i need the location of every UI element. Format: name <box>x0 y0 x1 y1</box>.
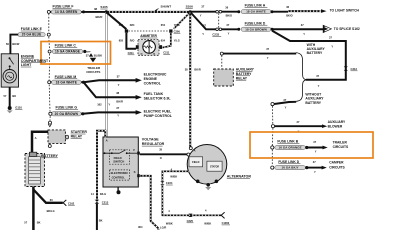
svg-text:ELECTRONIC: ELECTRONIC <box>144 73 167 77</box>
svg-text:LIGHT: LIGHT <box>21 63 32 67</box>
svg-text:O: O <box>160 156 162 160</box>
svg-text:R/O: R/O <box>130 23 135 27</box>
svg-text:20 GA BROWN: 20 GA BROWN <box>55 112 79 116</box>
alternator field box <box>189 157 203 167</box>
svg-text:BK/LG: BK/LG <box>47 209 55 213</box>
fuse link H (18 GA WHITE) <box>237 10 240 13</box>
alternator stator box <box>207 161 222 171</box>
svg-text:C224: C224 <box>166 181 173 185</box>
wire: 57 BK lamp ground lead <box>9 87 11 106</box>
svg-text:ENGINE: ENGINE <box>21 54 35 58</box>
svg-text:FUSE LINK E: FUSE LINK E <box>21 27 43 31</box>
svg-text:BK: BK <box>99 218 103 222</box>
wire: 654 Y/LG from C206 down into ammeter right pin (striped) <box>163 33 171 48</box>
connector C224 <box>160 181 164 183</box>
engine compartment light LAMP1 <box>1 54 18 87</box>
svg-text:FUSE LINK D: FUSE LINK D <box>278 160 299 164</box>
svg-text:ELECTRONIC: ELECTRONIC <box>111 171 129 175</box>
wire: to fuse link D <box>222 28 239 30</box>
wire: 904 LG/R regulator S to bottom edge (striped) <box>140 176 159 230</box>
dashed connector plane between ammeter connectors <box>128 30 169 32</box>
auxiliary battery relay K2 (dashed box) <box>221 55 223 68</box>
wire: 655 R/O from connector into ammeter left pin <box>126 33 136 49</box>
fuse link B (16 GA ORANGE) <box>271 146 274 149</box>
fuse link D (18 GA BROWN) <box>237 28 240 31</box>
svg-text:38: 38 <box>116 91 119 95</box>
svg-text:A: A <box>35 136 37 140</box>
regulator ground stub and dot <box>117 187 119 191</box>
svg-text:ELECTRIC FUEL: ELECTRIC FUEL <box>144 109 172 113</box>
svg-text:BLOWER: BLOWER <box>328 125 343 129</box>
svg-text:655: 655 <box>119 23 124 27</box>
svg-text:16 GA BK/Y: 16 GA BK/Y <box>282 166 299 170</box>
brace: with / without auxiliary battery options <box>296 53 306 102</box>
svg-text:TRAILER: TRAILER <box>333 140 348 144</box>
svg-text:A: A <box>106 139 108 143</box>
svg-text:FUSE LINK M: FUSE LINK M <box>55 75 77 79</box>
svg-text:S106: S106 <box>186 4 194 8</box>
svg-text:W/BK: W/BK <box>170 174 177 178</box>
svg-text:BATTERY: BATTERY <box>307 51 323 55</box>
svg-text:STARTER: STARTER <box>71 130 88 134</box>
wire: main feed 38 BK/R from fuse link F to splice S105 (top horizontal) <box>49 11 107 13</box>
svg-text:ALTERNATOR: ALTERNATOR <box>227 175 252 179</box>
wire: 37 Y branch to auxiliary battery option via C313 <box>272 31 346 80</box>
orange highlight box around fuse link C <box>41 42 111 65</box>
svg-text:20 GA BLUE: 20 GA BLUE <box>22 33 42 37</box>
wire: 37 Y to electric fuel pump control <box>81 112 84 115</box>
wire: 60 BK/W to engine compartment light <box>10 35 18 54</box>
svg-text:Y: Y <box>117 113 119 117</box>
svg-text:AUXILIARY: AUXILIARY <box>236 68 255 72</box>
svg-text:TO LIGHT SWITCH: TO LIGHT SWITCH <box>330 8 360 12</box>
left fuse-link column (dashed) <box>48 14 50 33</box>
svg-text:Y: Y <box>285 105 287 109</box>
svg-text:14 GA GREEN: 14 GA GREEN <box>55 10 78 14</box>
svg-text:BK/R: BK/R <box>116 99 123 103</box>
wire: 655 R/O from S105 down-left to ammeter connector <box>106 12 126 29</box>
svg-text:C213: C213 <box>102 200 109 204</box>
wire: 654 Y/LG from S106 down-left to connector C206 (striped) <box>174 12 191 29</box>
svg-text:W/P: W/P <box>86 51 91 53</box>
svg-text:C225: C225 <box>187 219 194 223</box>
svg-text:16 GA ORANGE: 16 GA ORANGE <box>279 146 302 150</box>
wire: 60 BK/LG branch to C162 <box>33 190 62 203</box>
svg-text:BK/O: BK/O <box>286 14 292 18</box>
ammeter right pin C211 <box>159 45 162 49</box>
svg-text:FIELD: FIELD <box>192 161 199 164</box>
svg-text:W/BK: W/BK <box>166 222 173 226</box>
wire: 37 Y from S106 down to fuse link D row <box>191 13 216 30</box>
svg-text:FUEL TANK: FUEL TANK <box>144 92 164 96</box>
svg-text:CIRCUITS: CIRCUITS <box>86 70 100 74</box>
svg-text:S105: S105 <box>100 5 108 9</box>
svg-text:LG/R: LG/R <box>160 226 166 230</box>
wire: 36 B/O to fuse link H <box>222 11 239 13</box>
svg-text:37: 37 <box>86 54 89 58</box>
svg-text:FUSE LINK H: FUSE LINK H <box>245 4 266 8</box>
svg-text:Y: Y <box>267 56 269 60</box>
svg-text:CIRCUITS: CIRCUITS <box>329 165 345 169</box>
svg-text:CONTROL: CONTROL <box>112 175 126 179</box>
svg-text:37: 37 <box>117 75 120 79</box>
svg-text:FUSE LINK C: FUSE LINK C <box>55 44 77 48</box>
svg-text:C211: C211 <box>163 51 170 55</box>
regulator field switch (dashed inner box) <box>110 150 130 164</box>
connector C206 inline square <box>169 29 172 32</box>
wire: shunt section 38 BK/R between S105 and S106 (striped) <box>106 11 190 13</box>
svg-text:37: 37 <box>116 106 119 110</box>
ground G110 <box>8 106 12 110</box>
svg-text:AUXILIARY: AUXILIARY <box>328 120 346 124</box>
starter relay K1 <box>49 121 52 124</box>
svg-text:COMPARTMENT: COMPARTMENT <box>21 59 49 63</box>
voltage regulator U1 (gray box) <box>103 137 138 187</box>
wire: 37 Y to camper circuits <box>307 167 322 169</box>
svg-text:W/BK: W/BK <box>204 222 211 226</box>
connector C1060 (wire end) <box>221 212 224 218</box>
arrow: down to trailer circuits <box>90 58 96 63</box>
svg-text:STATOR: STATOR <box>210 166 219 169</box>
battery BAT1 <box>25 154 45 187</box>
svg-text:A: A <box>194 148 196 152</box>
connector: ammeter left inline square <box>125 29 128 32</box>
svg-text:BK/R: BK/R <box>96 15 103 19</box>
wire: 38 BK/R from S106 down to alternator (striped) <box>189 13 191 147</box>
alternator bottom terminals <box>196 180 200 184</box>
svg-text:R/O: R/O <box>130 38 135 42</box>
wire: vertical bus from S105 down to voltage regulator (double line) <box>104 12 106 138</box>
switch inside light housing <box>9 57 11 59</box>
svg-text:BATTERY: BATTERY <box>41 154 58 158</box>
svg-text:C1060: C1060 <box>222 221 230 225</box>
svg-text:BK: BK <box>12 94 16 98</box>
svg-text:Y: Y <box>228 31 230 35</box>
svg-text:VOLTAGE: VOLTAGE <box>142 138 159 142</box>
fuse link F (14 GA GREEN) <box>47 10 50 13</box>
svg-text:Y: Y <box>200 13 202 17</box>
svg-text:Y: Y <box>202 32 204 36</box>
wire: 37 Y from S106 to connector C233 <box>190 11 216 13</box>
svg-text:654: 654 <box>161 38 166 42</box>
svg-text:BK/O: BK/O <box>226 14 232 18</box>
svg-text:R/LG: R/LG <box>100 192 106 196</box>
wire: 35 O regulator F to alternator field <box>140 153 187 155</box>
svg-text:Y/LG: Y/LG <box>174 23 180 27</box>
svg-text:ENGINE: ENGINE <box>144 77 158 81</box>
svg-text:RELAY: RELAY <box>236 76 248 80</box>
wire: 37 Y to trailer circuits <box>307 147 323 149</box>
wire: BK below C213 to bottom edge <box>96 204 98 230</box>
svg-text:Y: Y <box>315 149 317 153</box>
wire: battery ground cable 57 BK to bottom edge <box>32 187 35 231</box>
svg-text:Y: Y <box>318 84 320 88</box>
orange highlight box around fuse link B <box>250 132 373 158</box>
connector C225 <box>188 214 192 216</box>
svg-text:BK: BK <box>37 221 41 225</box>
wire: 37 Y to splice S162 <box>272 28 323 30</box>
wire: 37 Y without-auxiliary-battery option <box>271 103 274 106</box>
svg-text:BATTERY: BATTERY <box>305 101 321 105</box>
svg-text:18 GA BROWN: 18 GA BROWN <box>245 27 267 31</box>
svg-text:18 GA WHITE: 18 GA WHITE <box>56 80 77 84</box>
svg-text:CONTROL: CONTROL <box>144 81 162 85</box>
svg-text:162: 162 <box>97 103 102 107</box>
svg-text:F: F <box>133 148 135 152</box>
svg-text:TO SPLICE S162: TO SPLICE S162 <box>334 27 360 31</box>
wire: 36 B/O to light switch (striped) <box>272 11 288 13</box>
svg-text:BK/W: BK/W <box>12 42 19 46</box>
wire: 37 Y with-auxiliary-battery option <box>220 52 223 55</box>
svg-text:REGULATOR: REGULATOR <box>142 142 165 146</box>
svg-text:18 GA WHITE: 18 GA WHITE <box>246 10 266 14</box>
regulator electronic control (dashed inner box) <box>110 170 130 180</box>
svg-text:Y: Y <box>118 83 120 87</box>
svg-text:RELAY: RELAY <box>71 135 83 139</box>
svg-text:904: 904 <box>138 225 143 229</box>
wire: regulator A feed (striped) down to C213 <box>97 131 105 202</box>
svg-text:38: 38 <box>94 7 98 11</box>
wire: 37 Y to electronic engine control <box>84 80 137 82</box>
wire: 38 BK/R diagonal to fuel tank selector <box>84 82 137 97</box>
ammeter M1 (dashed box with meter circle) <box>138 40 159 56</box>
svg-text:654: 654 <box>161 23 166 27</box>
svg-text:C162: C162 <box>68 201 75 205</box>
connector C313 <box>344 66 348 70</box>
svg-text:CIRCUITS: CIRCUITS <box>333 145 349 149</box>
svg-text:AMMETER: AMMETER <box>140 34 157 38</box>
svg-text:FUSE LINK D: FUSE LINK D <box>245 21 266 25</box>
svg-text:G110: G110 <box>15 106 22 110</box>
svg-text:SELECTOR 6.9L: SELECTOR 6.9L <box>144 97 172 101</box>
svg-text:PUMP CONTROL: PUMP CONTROL <box>144 114 173 118</box>
wire: 37 Y to auxiliary blower <box>271 125 274 128</box>
svg-text:C211: C211 <box>128 51 135 55</box>
svg-text:16 GA ORANGE: 16 GA ORANGE <box>55 50 80 54</box>
connector C213 <box>95 200 100 202</box>
svg-text:BL/BK: BL/BK <box>94 54 102 58</box>
ammeter left pin C211 <box>136 45 139 49</box>
svg-text:655: 655 <box>119 38 124 42</box>
svg-text:FUSE LINK G: FUSE LINK G <box>56 106 78 110</box>
svg-text:BK/R: BK/R <box>194 68 200 72</box>
wire: battery positive cable to starter relay <box>32 132 48 153</box>
svg-text:Y/LG: Y/LG <box>174 38 180 42</box>
svg-text:C233: C233 <box>212 33 219 37</box>
svg-text:SHUNT: SHUNT <box>161 4 172 8</box>
svg-text:C313: C313 <box>351 67 358 71</box>
wire: 4 W/BK stator lead (striped) to C224 / C225 / C1060 <box>162 171 189 181</box>
alternator ground <box>205 187 211 190</box>
svg-text:S: S <box>134 170 136 174</box>
svg-text:FUSE LINK B: FUSE LINK B <box>277 140 298 144</box>
right fuse-link column (dashed) <box>272 106 274 124</box>
svg-text:Y: Y <box>108 103 110 107</box>
svg-text:Y: Y <box>331 44 333 48</box>
svg-text:CAMPER: CAMPER <box>329 161 344 165</box>
svg-text:FUSE LINK F: FUSE LINK F <box>53 4 74 8</box>
fuse link D2 (16 GA BK/Y) <box>271 166 274 169</box>
alternator G1 (gray circle) <box>187 145 227 185</box>
ammeter needle and shunt squiggle <box>148 40 150 53</box>
svg-text:SWITCH: SWITCH <box>113 160 124 164</box>
svg-text:BATTERY: BATTERY <box>236 72 252 76</box>
bulb symbol <box>3 70 16 83</box>
svg-text:C206: C206 <box>174 29 181 33</box>
svg-text:Y: Y <box>303 32 305 36</box>
svg-text:Y: Y <box>314 170 316 174</box>
connector C233 (circle pair, dashed link) <box>216 10 219 13</box>
